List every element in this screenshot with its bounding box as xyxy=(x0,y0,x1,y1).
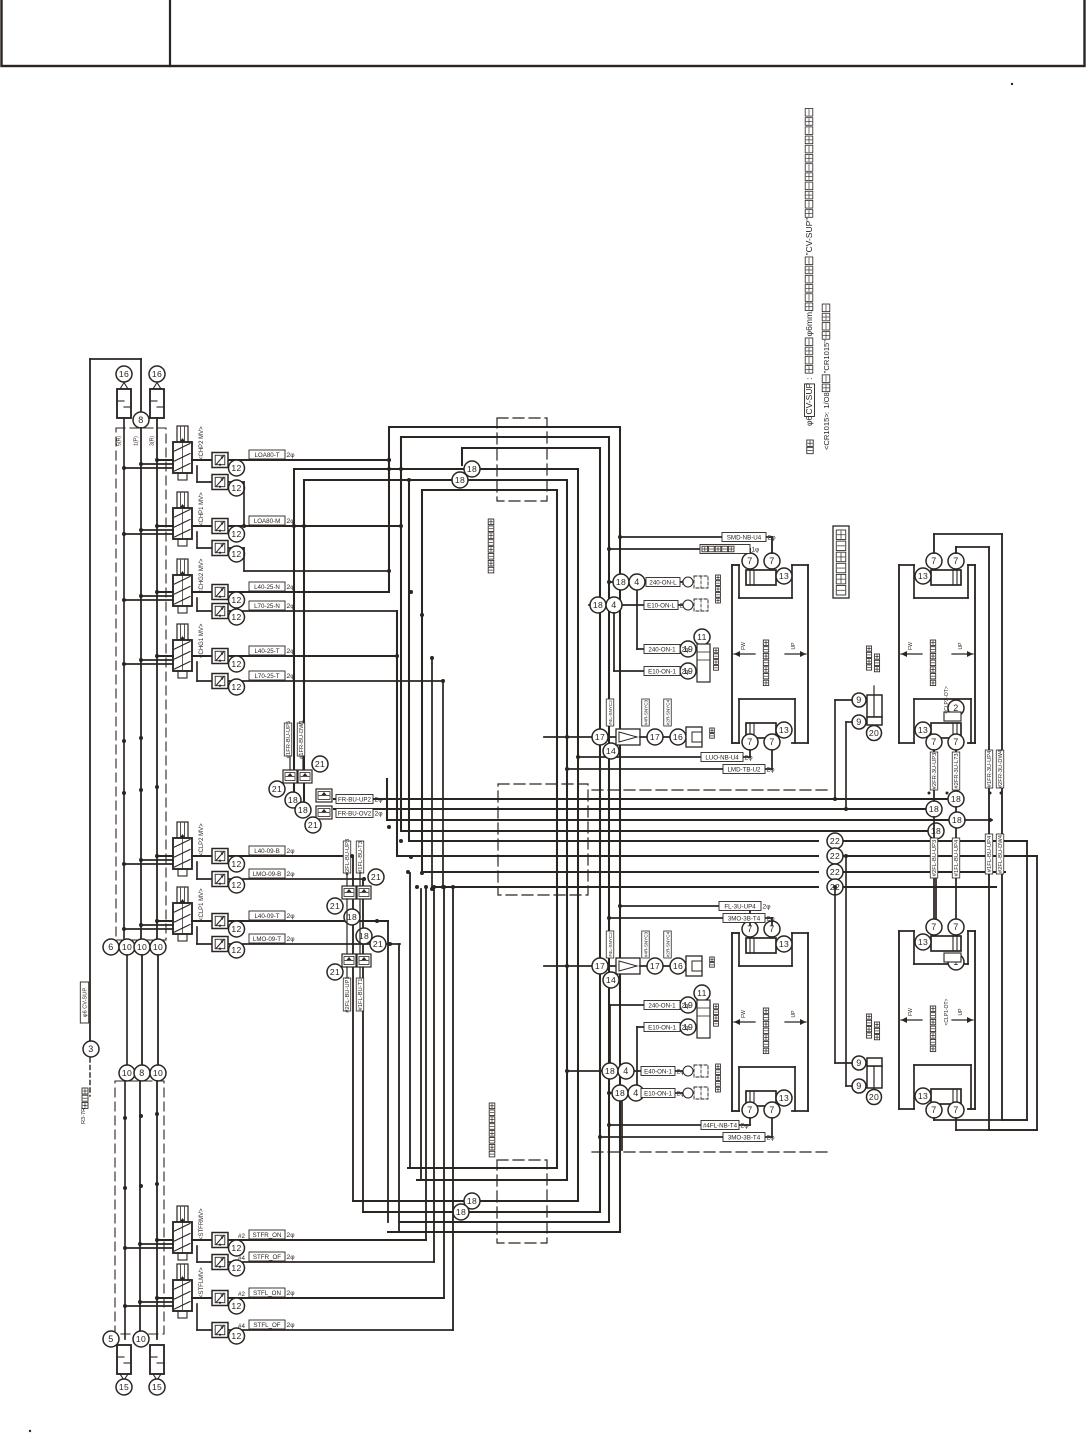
svg-text:2φ: 2φ xyxy=(745,755,754,762)
svg-text:#4R-SNYC3: #4R-SNYC3 xyxy=(644,931,649,957)
svg-text:17: 17 xyxy=(595,961,605,971)
svg-text:3: 3 xyxy=(88,1044,93,1054)
svg-text:7: 7 xyxy=(953,1105,958,1115)
svg-text:18: 18 xyxy=(615,1088,625,1098)
svg-text:12: 12 xyxy=(231,1243,241,1253)
svg-text:7: 7 xyxy=(931,922,936,932)
svg-text:16: 16 xyxy=(119,369,129,379)
svg-text:STFR_OF: STFR_OF xyxy=(253,1254,281,1261)
svg-text:2φ: 2φ xyxy=(741,1123,750,1130)
svg-text:LOA80-T: LOA80-T xyxy=(254,452,279,459)
svg-text:E40-ON-1: E40-ON-1 xyxy=(644,1068,672,1075)
svg-text:7: 7 xyxy=(769,1105,774,1115)
svg-text:2φ: 2φ xyxy=(682,1025,691,1032)
svg-text:240-ON-L: 240-ON-L xyxy=(649,579,677,586)
svg-text:FW: FW xyxy=(908,642,914,650)
svg-text:7: 7 xyxy=(931,1105,936,1115)
svg-text:17: 17 xyxy=(595,732,605,742)
svg-text:12: 12 xyxy=(231,859,241,869)
svg-text:#1FL-BU-T3: #1FL-BU-T3 xyxy=(358,841,364,873)
svg-text:"CV-SUP": "CV-SUP" xyxy=(804,218,814,256)
svg-text:18: 18 xyxy=(951,794,961,804)
svg-text:CV-SUP: CV-SUP xyxy=(804,383,814,415)
svg-text:21: 21 xyxy=(308,820,318,830)
svg-text:21: 21 xyxy=(315,759,325,769)
svg-text:L40-09-T: L40-09-T xyxy=(254,913,279,920)
svg-text:2φ: 2φ xyxy=(682,669,691,676)
svg-text:16: 16 xyxy=(673,961,683,971)
svg-text:<STFLMV>: <STFLMV> xyxy=(199,1267,205,1298)
svg-text:<CHG1 MV>: <CHG1 MV> xyxy=(199,623,205,658)
svg-text:18: 18 xyxy=(952,815,962,825)
svg-text:2φ: 2φ xyxy=(287,1322,296,1329)
svg-text:UP: UP xyxy=(958,642,964,650)
svg-text:12: 12 xyxy=(231,463,241,473)
svg-text:φ6 CV-SUP: φ6 CV-SUP xyxy=(83,988,89,1017)
svg-text:240-ON-1: 240-ON-1 xyxy=(648,1002,676,1009)
svg-text:L70-25-N: L70-25-N xyxy=(254,603,280,610)
svg-text:18: 18 xyxy=(347,912,357,922)
svg-text:10: 10 xyxy=(122,942,132,952)
svg-text:#2R-SNYC4: #2R-SNYC4 xyxy=(666,699,671,725)
svg-text:12: 12 xyxy=(231,483,241,493)
svg-text:4: 4 xyxy=(623,1066,628,1076)
svg-text:12: 12 xyxy=(231,612,241,622)
svg-text:E10-ON-1: E10-ON-1 xyxy=(644,1090,672,1097)
svg-text:9: 9 xyxy=(856,717,861,727)
svg-text:<STFRMV>: <STFRMV> xyxy=(199,1208,205,1240)
svg-text:12: 12 xyxy=(231,549,241,559)
svg-text:#2FL-BU-UP3: #2FL-BU-UP3 xyxy=(932,840,938,876)
svg-text:9: 9 xyxy=(856,695,861,705)
svg-text:#2FR-3U-DW4: #2FR-3U-DW4 xyxy=(998,749,1004,788)
svg-text:2φ: 2φ xyxy=(287,848,296,855)
svg-text:LMO-09-T: LMO-09-T xyxy=(253,936,281,943)
svg-text:7: 7 xyxy=(953,922,958,932)
svg-text:3(R): 3(R) xyxy=(150,436,156,446)
svg-text:2φ: 2φ xyxy=(287,1232,296,1239)
svg-text:LUO-NB-U4: LUO-NB-U4 xyxy=(705,754,739,761)
svg-text:13: 13 xyxy=(779,571,789,581)
svg-text:L70-25-T: L70-25-T xyxy=(254,673,279,680)
svg-text:<CLP1 MV>: <CLP1 MV> xyxy=(199,888,205,921)
svg-text:13: 13 xyxy=(918,1091,928,1101)
svg-text:17: 17 xyxy=(650,961,660,971)
svg-text:12: 12 xyxy=(231,880,241,890)
svg-text:21: 21 xyxy=(272,784,282,794)
svg-text:11: 11 xyxy=(697,988,707,998)
svg-text:UP: UP xyxy=(791,642,797,650)
svg-text:12: 12 xyxy=(231,945,241,955)
svg-text:5: 5 xyxy=(108,1334,113,1344)
svg-text:2φ: 2φ xyxy=(682,647,691,654)
svg-text:#2: #2 xyxy=(238,1291,245,1298)
svg-text:LMD-TB-U2: LMD-TB-U2 xyxy=(727,766,761,773)
svg-text:240-ON-1: 240-ON-1 xyxy=(648,646,676,653)
svg-text::: : xyxy=(804,378,814,380)
svg-text:12: 12 xyxy=(231,924,241,934)
svg-text:FR-BU-OV2: FR-BU-OV2 xyxy=(338,810,372,817)
svg-text:17: 17 xyxy=(650,732,660,742)
svg-text:#1FL-BU-T1: #1FL-BU-T1 xyxy=(358,979,364,1011)
svg-text:#2: #2 xyxy=(238,1233,245,1240)
svg-text:SMD-NB-U4: SMD-NB-U4 xyxy=(727,534,762,541)
svg-text:2φ: 2φ xyxy=(287,1290,296,1297)
svg-text:18: 18 xyxy=(288,795,298,805)
svg-text:18: 18 xyxy=(931,826,941,836)
svg-text:7: 7 xyxy=(769,556,774,566)
svg-text:12: 12 xyxy=(231,659,241,669)
svg-text:#1FL-BU-UP4: #1FL-BU-UP4 xyxy=(987,835,993,872)
svg-text:2φ: 2φ xyxy=(767,916,776,923)
svg-text:7: 7 xyxy=(769,737,774,747)
svg-text:3MO-3B-T4: 3MO-3B-T4 xyxy=(728,1134,761,1141)
svg-text:7: 7 xyxy=(747,1105,752,1115)
svg-text:12: 12 xyxy=(231,595,241,605)
svg-text:18: 18 xyxy=(298,805,308,815)
svg-text:9: 9 xyxy=(856,1058,861,1068)
svg-text:#4L-SNYC2: #4L-SNYC2 xyxy=(608,932,613,957)
svg-text:2φ: 2φ xyxy=(287,936,296,943)
svg-text:UP: UP xyxy=(791,1010,797,1018)
svg-text:7: 7 xyxy=(931,737,936,747)
svg-text:FW: FW xyxy=(741,1010,747,1018)
svg-text:13: 13 xyxy=(779,725,789,735)
svg-text:16: 16 xyxy=(152,369,162,379)
svg-text:STFL_OF: STFL_OF xyxy=(253,1322,280,1329)
svg-text:10: 10 xyxy=(153,942,163,952)
svg-text:2φ: 2φ xyxy=(767,767,776,774)
svg-text:#2FL-BU-UP3: #2FL-BU-UP3 xyxy=(345,839,351,875)
svg-text:9: 9 xyxy=(856,1081,861,1091)
svg-text:18: 18 xyxy=(605,1066,615,1076)
svg-text:2φ: 2φ xyxy=(763,904,772,911)
svg-text:11: 11 xyxy=(697,632,707,642)
svg-text:12: 12 xyxy=(231,682,241,692)
svg-text:#2FL-BU-DW4: #2FL-BU-DW4 xyxy=(998,834,1004,873)
svg-text:#2FR-3U-L73: #2FR-3U-L73 xyxy=(954,753,960,788)
svg-text:18: 18 xyxy=(456,1207,466,1217)
svg-text::: : xyxy=(822,412,831,414)
svg-text:<CLP1-OT>: <CLP1-OT> xyxy=(944,998,950,1025)
svg-text:4: 4 xyxy=(634,577,639,587)
svg-text:L40-09-B: L40-09-B xyxy=(254,848,279,855)
svg-text:12: 12 xyxy=(231,1301,241,1311)
svg-text:16: 16 xyxy=(673,732,683,742)
svg-text:L40-25-N: L40-25-N xyxy=(254,584,280,591)
svg-text:18: 18 xyxy=(593,600,603,610)
svg-text:#4: #4 xyxy=(238,1323,245,1330)
svg-text:#4R-SNYC3: #4R-SNYC3 xyxy=(644,699,649,725)
svg-text:14: 14 xyxy=(606,975,616,985)
svg-text:2φ: 2φ xyxy=(287,913,296,920)
svg-text:22: 22 xyxy=(830,867,840,877)
svg-text:STFR_ON: STFR_ON xyxy=(253,1232,282,1239)
svg-text:#2R-SNYC4: #2R-SNYC4 xyxy=(666,931,671,957)
svg-text:21: 21 xyxy=(371,872,381,882)
svg-text:<CHP1 MV>: <CHP1 MV> xyxy=(199,492,205,526)
svg-text:E10-ON-1: E10-ON-1 xyxy=(648,1024,676,1031)
svg-text:<CLPX-OT>: <CLPX-OT> xyxy=(944,686,950,714)
svg-text:13: 13 xyxy=(918,571,928,581)
svg-text:FW: FW xyxy=(908,1008,914,1016)
svg-text:2φ: 2φ xyxy=(768,535,777,542)
svg-text:7: 7 xyxy=(747,737,752,747)
svg-text:2φ: 2φ xyxy=(375,797,384,804)
svg-text:18: 18 xyxy=(467,464,477,474)
svg-text:<CHP2 MV>: <CHP2 MV> xyxy=(199,426,205,460)
svg-text:12: 12 xyxy=(231,1263,241,1273)
svg-text:7: 7 xyxy=(953,737,958,747)
svg-text:13: 13 xyxy=(918,725,928,735)
svg-text:#1FR-3U-UP4: #1FR-3U-UP4 xyxy=(987,750,993,787)
svg-text:2φ: 2φ xyxy=(682,1003,691,1010)
svg-text:LMO-09-B: LMO-09-B xyxy=(253,871,282,878)
svg-text:STFL_ON: STFL_ON xyxy=(253,1290,281,1297)
svg-text:8: 8 xyxy=(139,1068,144,1078)
svg-text:21: 21 xyxy=(373,939,383,949)
svg-text:#1FR-BU-UP5: #1FR-BU-UP5 xyxy=(286,721,292,758)
svg-text:21: 21 xyxy=(330,967,340,977)
svg-text:2φ: 2φ xyxy=(287,871,296,878)
svg-text:#1FR-BU-DW1: #1FR-BU-DW1 xyxy=(299,720,305,759)
svg-text:2φ: 2φ xyxy=(375,811,384,818)
svg-text:7: 7 xyxy=(747,556,752,566)
svg-text:1φ: 1φ xyxy=(752,547,760,554)
svg-text:7: 7 xyxy=(953,556,958,566)
svg-text:13: 13 xyxy=(918,937,928,947)
svg-text:12: 12 xyxy=(231,529,241,539)
svg-text:<CHG2 MV>: <CHG2 MV> xyxy=(199,558,205,593)
svg-text:15: 15 xyxy=(119,1382,129,1392)
svg-text:FR-BU-UP2: FR-BU-UP2 xyxy=(338,796,372,803)
svg-text:1(P): 1(P) xyxy=(134,436,140,446)
svg-text:10: 10 xyxy=(153,1068,163,1078)
svg-text:#1FL-BU-UP4: #1FL-BU-UP4 xyxy=(954,839,960,876)
svg-text:22: 22 xyxy=(830,851,840,861)
svg-text:#2FL-BU-UP1: #2FL-BU-UP1 xyxy=(345,976,351,1012)
svg-text:15: 15 xyxy=(152,1382,162,1392)
svg-text:#4L-SNYC2: #4L-SNYC2 xyxy=(608,700,613,725)
svg-text:"CR1015": "CR1015" xyxy=(822,340,831,374)
svg-text:1/O8: 1/O8 xyxy=(822,392,831,408)
svg-text:10: 10 xyxy=(137,942,147,952)
svg-text:2φ: 2φ xyxy=(287,1254,296,1261)
svg-text:12: 12 xyxy=(231,1331,241,1341)
svg-text:#2FR-3U-UP3: #2FR-3U-UP3 xyxy=(932,753,938,790)
svg-text:<CR1015>: <CR1015> xyxy=(822,413,831,450)
svg-text:10: 10 xyxy=(122,1068,132,1078)
svg-text:2φ: 2φ xyxy=(287,452,296,459)
svg-text:5(R): 5(R) xyxy=(117,436,123,446)
svg-text:2φ: 2φ xyxy=(767,1135,776,1142)
svg-text:18: 18 xyxy=(929,804,939,814)
svg-text:13: 13 xyxy=(779,939,789,949)
svg-text:LOA80-M: LOA80-M xyxy=(254,518,280,525)
svg-text:21: 21 xyxy=(330,901,340,911)
svg-text:20: 20 xyxy=(869,1092,879,1102)
svg-text:E10-ON-1: E10-ON-1 xyxy=(648,668,676,675)
svg-text:φ6mm,: φ6mm, xyxy=(804,310,814,337)
svg-text:14: 14 xyxy=(606,746,616,756)
svg-text:R3-7R: R3-7R xyxy=(81,1108,87,1124)
svg-text:L40-25-T: L40-25-T xyxy=(254,648,279,655)
svg-text:8: 8 xyxy=(138,415,143,425)
svg-text:3MO-3B-T4: 3MO-3B-T4 xyxy=(728,915,761,922)
svg-text:4: 4 xyxy=(633,1088,638,1098)
svg-text:18: 18 xyxy=(616,577,626,587)
svg-text:FL-3U-UP4: FL-3U-UP4 xyxy=(724,903,756,910)
svg-text:#4FL-NB-T4: #4FL-NB-T4 xyxy=(703,1122,738,1129)
svg-text:4: 4 xyxy=(611,600,616,610)
svg-text:18: 18 xyxy=(467,1196,477,1206)
svg-text:20: 20 xyxy=(869,728,879,738)
svg-text:UP: UP xyxy=(958,1008,964,1016)
svg-text:18: 18 xyxy=(455,475,465,485)
svg-text:E10-ON-L: E10-ON-L xyxy=(647,602,675,609)
svg-text:13: 13 xyxy=(779,1093,789,1103)
svg-text:6: 6 xyxy=(108,942,113,952)
svg-text:<CLP2 MV>: <CLP2 MV> xyxy=(199,823,205,856)
svg-text:FW: FW xyxy=(741,642,747,650)
svg-text:22: 22 xyxy=(830,836,840,846)
svg-text:7: 7 xyxy=(931,556,936,566)
svg-text:10: 10 xyxy=(136,1334,146,1344)
svg-text:#4: #4 xyxy=(238,1255,245,1262)
svg-text:φ6: φ6 xyxy=(804,415,814,426)
